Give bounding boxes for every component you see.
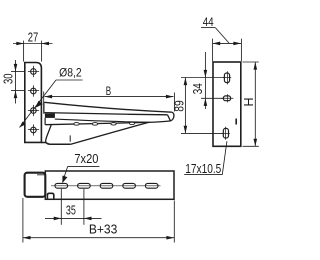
- gusset bend tick: [69, 135, 71, 141]
- web hole marks: [74, 122, 135, 125]
- dimension 89: [181, 78, 224, 134]
- slot T5: [145, 183, 158, 188]
- slot T2: [78, 183, 91, 188]
- bottom view arm outline: [45, 171, 174, 199]
- arm tip: [168, 112, 174, 121]
- svg-text:35: 35: [66, 204, 76, 218]
- bottom view centerline: [51, 185, 161, 187]
- svg-text:27: 27: [28, 31, 39, 45]
- slot T4: [123, 183, 136, 188]
- bottom view wall plate: [25, 173, 46, 197]
- slot S1 vertical: [223, 71, 231, 84]
- slot S2 horizontal: [221, 94, 233, 102]
- gusset heel edge: [46, 124, 52, 144]
- leader 7x20: [63, 166, 100, 181]
- upright rear plate (end view): [213, 62, 241, 146]
- leader 17x10.5: [184, 141, 227, 174]
- bottom view weld mark: [47, 193, 53, 198]
- gusset flat bottom: [50, 143, 71, 145]
- dimension 34: [201, 52, 223, 109]
- arm web bottom line: [45, 121, 170, 125]
- leader diameter 8,2: [20, 80, 57, 128]
- arm end cap: [43, 102, 45, 114]
- dimension 27: [13, 41, 53, 62]
- arm end lower edge: [44, 118, 46, 125]
- hole 3: [28, 105, 39, 116]
- arm top flange lower edge: [45, 113, 168, 115]
- dimension 30: [11, 60, 24, 104]
- svg-text:Ø8,2: Ø8,2: [59, 65, 82, 79]
- svg-text:B: B: [106, 84, 111, 98]
- dimension H: [243, 62, 259, 146]
- dimension 35: [45, 189, 102, 225]
- svg-text:89: 89: [173, 100, 187, 112]
- slot S3 vertical: [222, 127, 230, 140]
- bottom view plate edge line: [37, 174, 45, 176]
- gusset hypotenuse: [71, 122, 149, 144]
- slot T1: [55, 183, 68, 188]
- weld seam arm: [45, 113, 55, 118]
- svg-text:30: 30: [2, 74, 16, 85]
- svg-text:B+33: B+33: [89, 223, 118, 237]
- dimension B: [44, 92, 175, 113]
- weld tick end view: [235, 119, 237, 125]
- svg-text:44: 44: [203, 15, 214, 29]
- svg-text:7x20: 7x20: [74, 152, 98, 166]
- dimension B+33: [23, 198, 174, 243]
- plate-to-gusset bottom joint: [41, 143, 49, 145]
- svg-text:34: 34: [191, 83, 205, 94]
- hole 1: [28, 66, 39, 77]
- slot T3: [100, 183, 113, 188]
- wall plate (side view): [25, 63, 42, 143]
- hole 2: [28, 85, 39, 96]
- dimension 44: [201, 28, 241, 62]
- hole 4: [28, 124, 39, 135]
- svg-text:17x10.5: 17x10.5: [185, 162, 221, 176]
- arm top flange upper edge: [44, 102, 172, 112]
- arm lower flange line: [55, 119, 150, 122]
- svg-text:H: H: [242, 97, 256, 106]
